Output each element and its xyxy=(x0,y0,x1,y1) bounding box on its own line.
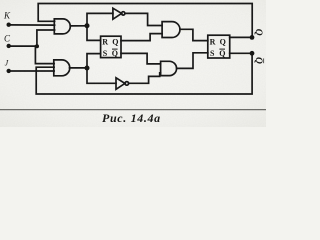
rule separator xyxy=(0,109,266,110)
node Q-bar terminal dot xyxy=(250,51,255,56)
wire J input xyxy=(9,70,54,72)
node top junction dot xyxy=(85,23,90,28)
wire top-right gate output to slave R xyxy=(180,29,208,40)
inverter U1 triangle xyxy=(113,8,122,19)
node Q terminal dot xyxy=(250,35,255,40)
wire master Q-bar to bottom-right gate xyxy=(121,53,161,64)
wire inverter 1 output to top-right gate xyxy=(125,13,162,25)
wire C branch up to top gate xyxy=(37,30,55,46)
wire C input xyxy=(9,45,37,47)
paper background xyxy=(0,0,266,127)
wire inverter 2 output to bottom-right gate xyxy=(129,73,161,84)
wire bottom feedback from Q-bar xyxy=(36,53,252,94)
wire slave Q-bar output xyxy=(230,52,252,54)
wire top-left gate output xyxy=(70,25,87,27)
node bottom junction dot xyxy=(85,66,90,71)
wire junction up to master S xyxy=(87,54,101,68)
wire top feedback from Q xyxy=(38,4,252,38)
wire C branch down to bottom gate xyxy=(35,46,54,64)
inverter U2 bubble xyxy=(125,82,129,86)
node C junction dot xyxy=(35,44,39,48)
wire bottom-right gate output to slave S xyxy=(177,53,208,69)
inverter U1 bubble xyxy=(122,12,125,15)
latch slave box xyxy=(208,35,230,58)
wire master Q to top-right gate xyxy=(121,34,162,41)
wire junction down to inverter 2 xyxy=(87,68,116,83)
wire K input xyxy=(9,24,55,26)
latch master box xyxy=(101,36,121,57)
wire bottom-left gate output xyxy=(70,67,88,69)
and-gate G3 top-right xyxy=(162,22,180,38)
wire slave Q output xyxy=(230,36,253,38)
node J terminal dot xyxy=(7,69,11,73)
label slave Q-bar overline xyxy=(219,49,225,50)
and-gate G4 bottom-right xyxy=(161,61,177,75)
node C terminal dot xyxy=(7,44,11,48)
node K terminal dot xyxy=(7,23,11,27)
label master Q-bar overline xyxy=(112,49,118,50)
wire junction up to inverter 1 xyxy=(87,13,113,25)
wire junction down to master R xyxy=(87,26,101,41)
and-gate G1 top-left xyxy=(54,19,70,34)
inverter U2 triangle xyxy=(116,78,125,90)
and-gate G2 bottom-left xyxy=(54,60,70,76)
